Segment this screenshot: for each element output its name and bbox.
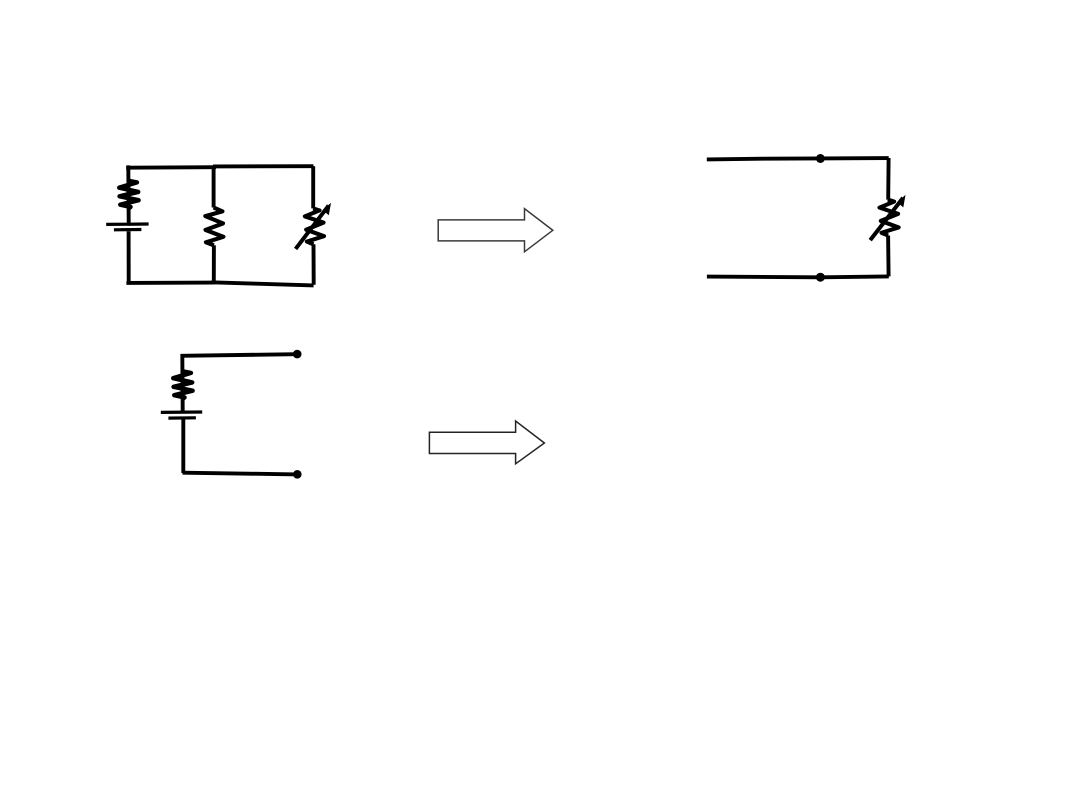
battery V1 short plate [114,228,141,232]
rheostat VR2 arrowhead [897,195,905,208]
block arrow B (bottom) [429,421,544,464]
battery V3 long plate [161,410,202,414]
wire: circuit1 right branch upper [311,166,315,208]
battery V1 long plate [106,222,148,226]
wire: circuit1 middle branch lower [212,245,216,283]
rheostat VR2 zigzag [880,200,899,236]
wire: circuit1 top rail right segment [213,164,313,168]
wire: circuit3 top lead [181,354,298,356]
resistor R1 (battery internal resistance, scribble) [119,181,138,208]
rheostat VR1 arrowhead [323,203,331,216]
wire: circuit1 right branch lower [312,244,316,284]
node: circuit2 bottom terminal dot [816,273,825,282]
wire: circuit1 bottom rail right half (slight slope) [212,282,314,285]
battery V3 short plate [168,416,196,420]
wire: circuit3 bottom lead [183,473,298,475]
node: circuit3 top terminal dot [293,350,302,359]
rheostat VR2 arrow shaft [870,198,903,240]
wire: circuit2 top lead [707,158,889,159]
node: circuit2 top terminal dot [816,154,825,163]
wire: circuit2 right vertical lower [886,236,890,277]
wire: circuit2 bottom lead [707,274,889,279]
wire: circuit3 left vertical below battery [181,420,185,474]
wire: circuit1 top rail [126,165,216,169]
rheostat VR1 zigzag [305,208,324,244]
resistor R2 (middle branch zigzag) [205,208,223,246]
rheostat VR1 arrow shaft [296,206,329,249]
node: circuit3 bottom terminal dot [293,470,302,479]
wire: circuit1 bottom rail left half [126,281,215,285]
wire: circuit1 middle branch upper [212,167,216,208]
wire: circuit1 left branch below battery [127,231,131,283]
wire: circuit2 right vertical upper [886,158,890,200]
wire: circuit3 left vertical (through resistor down to battery) [180,354,184,411]
wire: circuit1 left branch vertical (through resistor down to battery) [126,165,130,222]
resistor R3 (battery internal resistance, scribble) [173,371,192,398]
block arrow A (top) [438,209,553,252]
